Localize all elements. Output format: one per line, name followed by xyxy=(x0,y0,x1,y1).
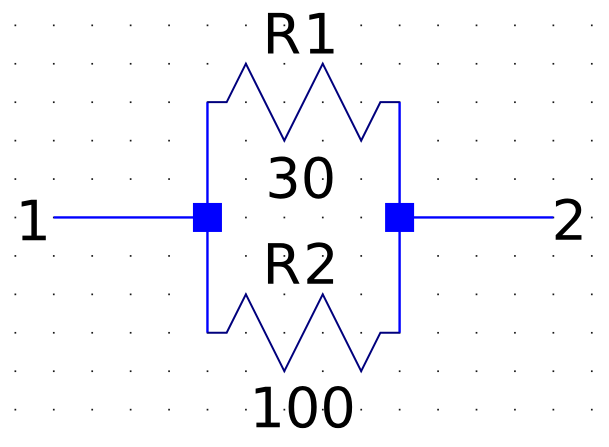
resistor R2 xyxy=(207,294,399,371)
wire: terminal 1 to node A xyxy=(54,216,208,218)
label R2 (reference designator) xyxy=(268,242,333,283)
wire: right vertical bus xyxy=(398,102,400,333)
value 100 (R2 resistance) xyxy=(256,386,353,428)
terminal 2 (pin label) xyxy=(556,198,582,239)
resistor R1 xyxy=(207,64,399,141)
value 30 (R1 resistance) xyxy=(270,157,333,199)
wire: node B to terminal 2 xyxy=(400,216,554,218)
terminal 1 (pin label) xyxy=(22,200,46,241)
node A (junction square) xyxy=(193,203,222,232)
label R1 (reference designator) xyxy=(268,13,334,54)
node B (junction square) xyxy=(385,203,414,232)
wire: left vertical bus xyxy=(206,102,208,333)
